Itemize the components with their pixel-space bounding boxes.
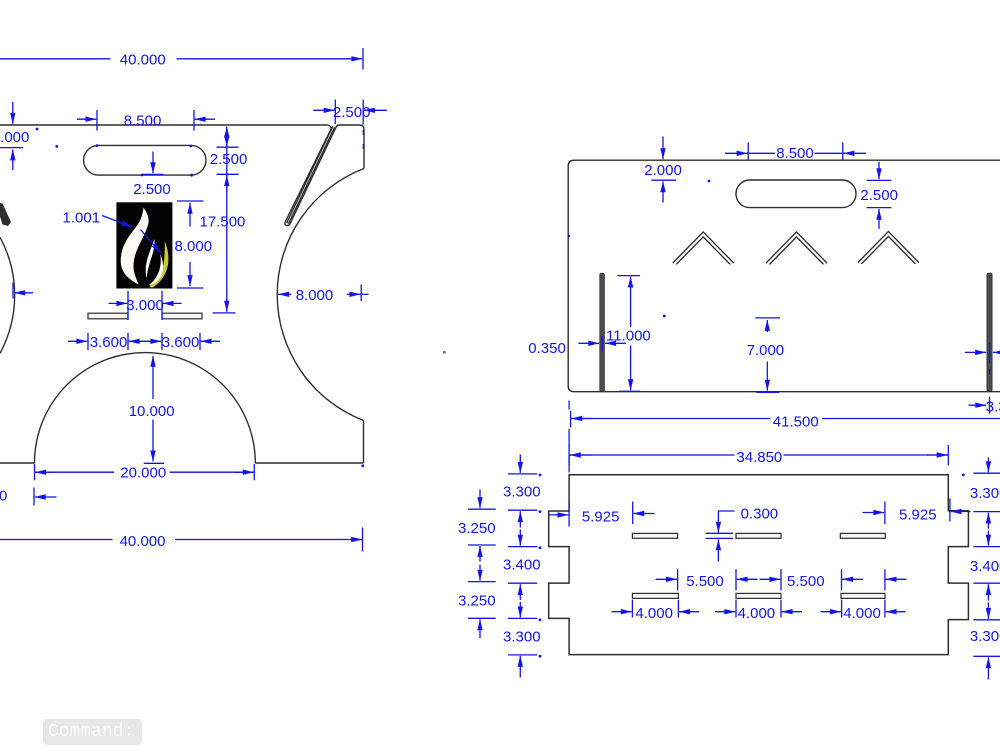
dimension 4.000 slot C (821, 600, 906, 622)
dimension 8.500 (part1 slot) (77, 110, 215, 131)
flame logo: black background (116, 202, 172, 288)
svg-text:3.400: 3.400 (970, 558, 1000, 575)
dimension 2.000 part2 (644, 137, 682, 203)
part3 row1 slot B (736, 533, 781, 538)
svg-text:40.000: 40.000 (120, 52, 166, 69)
dimension 8.000 (logo height) (175, 201, 213, 288)
svg-text:3.300: 3.300 (503, 628, 541, 645)
svg-text:3.250: 3.250 (458, 520, 496, 537)
svg-text:7.000: 7.000 (747, 342, 785, 359)
svg-text:5.500: 5.500 (787, 573, 825, 590)
svg-text:1.000: 1.000 (0, 488, 7, 505)
dimension 40.000 bottom (0, 528, 363, 552)
dimension 8.000 right cutout (278, 285, 368, 304)
dimension 20.000 (semicircle) (35, 464, 255, 482)
dimension 3.600 right thin slot (145, 333, 221, 351)
part3 row1 slot C (840, 533, 885, 538)
dimension 8.000 left cutout (cut off) (13, 283, 33, 299)
svg-text:4.000: 4.000 (738, 605, 776, 622)
svg-text:8.000: 8.000 (296, 287, 334, 304)
dimension right vertical slot width (965, 343, 1000, 364)
svg-text:2.500: 2.500 (210, 151, 248, 168)
svg-text:3.400: 3.400 (503, 557, 541, 574)
chevron leg flat ends (white trim) (668, 264, 738, 269)
part2 chevron 2 (767, 234, 826, 264)
dimension 40.000 top (0, 48, 363, 70)
part1 right circular cutout arc (277, 169, 364, 421)
svg-text:1.001: 1.001 (63, 210, 101, 227)
part3 row2 slot B (736, 593, 781, 598)
dimension 7.000 part2 (747, 318, 785, 393)
svg-text:4.000: 4.000 (635, 605, 673, 622)
svg-text:8.500: 8.500 (776, 145, 814, 162)
part1 left diagonal slot stub (cut off at image edge) (0, 203, 11, 226)
dimension 17.500 (200, 127, 246, 313)
part1 outline: bottom edge right segment (255, 462, 363, 464)
flame logo: middle white streak (146, 239, 155, 279)
svg-text:10.000: 10.000 (129, 403, 175, 420)
dimension 3.600 left thin slot (68, 333, 146, 351)
dimension 2.500 below part1 slot (133, 152, 171, 198)
part1 outline: top edge right segment + rounded corner (339, 125, 364, 130)
dimension 3.000 (gap between thin slots) (109, 291, 182, 320)
tick and arrow right of slot C row2 (885, 569, 907, 590)
svg-text:8.500: 8.500 (124, 112, 162, 129)
svg-text:3.300: 3.300 (970, 485, 1000, 502)
svg-text:17.500: 17.500 (200, 213, 246, 230)
svg-text:3.000: 3.000 (126, 297, 164, 314)
dimension 8.500 part2 slot (725, 143, 866, 163)
dimension 2.500 right of part1 slot (210, 128, 248, 311)
svg-text:2.000: 2.000 (644, 162, 682, 179)
part3 row1 slot A (632, 533, 677, 538)
dimension 0.350 left vertical slot (528, 336, 626, 357)
svg-text:5.925: 5.925 (582, 508, 620, 525)
svg-text:2.000: 2.000 (0, 129, 29, 146)
part2 vertical slot left (600, 273, 605, 391)
extension line segments x=569 (568, 401, 570, 473)
svg-text:0.300: 0.300 (741, 505, 779, 522)
svg-text:3.300: 3.300 (986, 398, 1000, 415)
svg-text:5.500: 5.500 (686, 573, 724, 590)
svg-text:4.000: 4.000 (843, 605, 881, 622)
flame logo: main white flame (121, 208, 149, 285)
svg-text:40.000: 40.000 (120, 533, 166, 550)
svg-text:2.500: 2.500 (860, 187, 898, 204)
dimension 1.000 bottom-left (cut off) (0, 488, 57, 506)
command line box (43, 719, 142, 745)
leader 1.001 to flame logo (63, 210, 162, 254)
dimension 41.500 (571, 411, 1000, 431)
dimension 4.000 slot B (715, 600, 802, 622)
dimension 5.925 right (863, 499, 971, 525)
svg-text:34.850: 34.850 (736, 449, 782, 466)
dimension 0.300 slot thickness leader (706, 505, 779, 561)
part3 left inner dimension column 3.300/3.400/3.300 (503, 455, 541, 678)
svg-text:5.925: 5.925 (899, 507, 937, 524)
dimension 2.000 top-left (cut off) (0, 102, 29, 170)
part1 outline: bottom edge left segment (0, 462, 35, 464)
part3 row2 slot A (632, 593, 678, 598)
part1 thin slot left below logo (88, 313, 128, 319)
svg-text:20.000: 20.000 (120, 465, 166, 482)
svg-text:2.500: 2.500 (133, 181, 171, 198)
svg-text:3.300: 3.300 (503, 483, 541, 500)
svg-text:8.000: 8.000 (175, 238, 213, 255)
part3 left outer dimension column 3.250/3.250 (458, 490, 496, 639)
part3 right dimension column (970, 458, 1000, 680)
part1 outline: right edge upper (363, 130, 365, 169)
dimension 4.000 slot A (612, 600, 700, 622)
part2 vertical slot right (987, 273, 992, 391)
dimension 2.500 part2 slot height (860, 162, 898, 229)
svg-text:41.500: 41.500 (773, 414, 819, 431)
part1 outline: top edge left segment (0, 124, 328, 126)
part2 outline (rounded rect, cut off at right) (568, 160, 1000, 392)
part1 outline: right edge lower (363, 421, 365, 464)
svg-text:0.350: 0.350 (528, 340, 566, 357)
dimension 5.500 gap 2 (760, 569, 864, 590)
svg-text:3.600: 3.600 (90, 334, 128, 351)
part1 bottom semicircular cutout (35, 353, 256, 463)
svg-text:2.500: 2.500 (333, 104, 371, 121)
part3 outline with side tabs (549, 475, 969, 655)
flame logo: yellow flame crescent (150, 241, 169, 287)
part1 top slot (stadium) (84, 145, 206, 175)
dimension 3.300 below right slot (cut off) (969, 397, 1000, 416)
part1 left circular cutout arc (0, 237, 15, 353)
center dash on right vertical slot (989, 369, 991, 375)
dimension 11.000 vertical slot length (606, 276, 651, 392)
dimension 5.925 left (549, 502, 655, 527)
svg-text:3.250: 3.250 (458, 592, 496, 609)
dimension 34.850 (569, 445, 948, 466)
part2 top slot (stadium) (736, 180, 856, 208)
dimension 2.500 top-right (diagonal slot) (313, 100, 387, 149)
dimension 5.500 gap 1 (656, 569, 758, 590)
part3 row2 slot C (841, 593, 885, 598)
small extension dots (36, 128, 965, 658)
svg-text:3.300: 3.300 (970, 628, 1000, 645)
svg-text:11.000: 11.000 (606, 328, 651, 345)
part2 chevron 1 (674, 234, 733, 264)
part1 diagonal slot (top-right corner slot) (285, 125, 339, 226)
flame logo: white streak inside yellow (149, 254, 164, 285)
dimension 10.000 (semicircle radius) (129, 356, 175, 464)
part2 chevron 3 (859, 234, 918, 264)
svg-text:3.600: 3.600 (162, 334, 200, 351)
part1 thin slot right below logo (162, 313, 202, 319)
